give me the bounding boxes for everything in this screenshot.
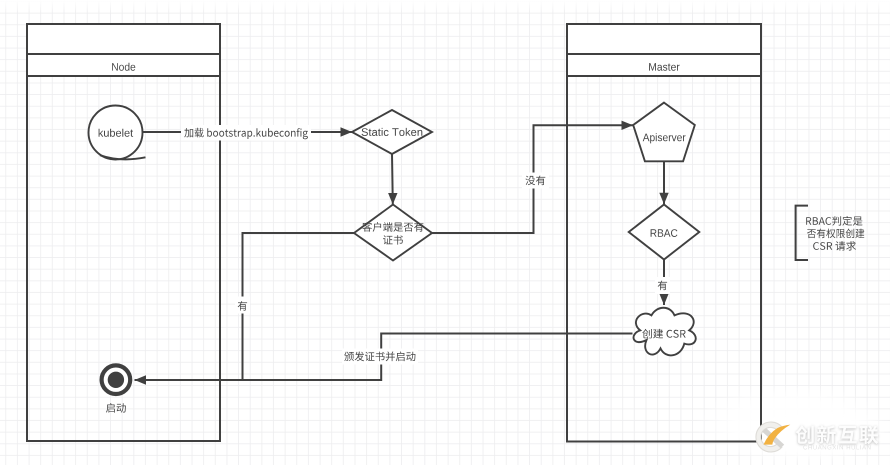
wire Apiserver down to RBAC — [659, 162, 668, 205]
watermark logo badge — [756, 422, 790, 452]
node client-cert diamond — [354, 205, 432, 261]
wire Static Token down to client-cert diamond — [388, 154, 397, 205]
swimlane Master title — [649, 63, 680, 71]
swimlane Node title — [112, 63, 135, 71]
node start label — [106, 403, 126, 413]
wire no-cert path: client-cert diamond right, up, into Apiserver — [432, 121, 633, 233]
node cloud label — [642, 329, 685, 339]
edge label issue cert and start — [342, 349, 418, 365]
edge label load bootstrap.kubeconfig — [181, 125, 311, 141]
node client-cert label line1 — [362, 222, 423, 232]
node Apiserver label — [643, 133, 686, 143]
wire cloud to start bullseye (issue cert and start) — [135, 334, 633, 385]
edge label no (meiyou) — [522, 173, 549, 189]
node client-cert label line2 — [383, 235, 403, 245]
watermark text chuangxin hulian — [796, 425, 879, 449]
swimlane Node — [27, 24, 220, 441]
edge label yes (you) left — [235, 297, 250, 314]
wire kubelet to Static Token — [143, 127, 353, 136]
node Static Token label — [362, 128, 423, 136]
edge label yes (you) right — [655, 277, 670, 294]
node kubelet label — [99, 129, 134, 137]
node Static Token diamond — [352, 110, 432, 154]
node start bullseye — [102, 365, 131, 394]
node cloud create CSR — [634, 308, 696, 356]
annotation text line3 — [813, 241, 856, 251]
node RBAC label — [651, 229, 678, 237]
wire RBAC down to cloud — [659, 260, 668, 305]
annotation text line1 — [806, 216, 862, 226]
node RBAC diamond — [629, 205, 700, 260]
annotation text line2 — [807, 229, 864, 239]
swimlane Master — [567, 24, 761, 442]
watermark glow — [695, 383, 890, 465]
node kubelet circle — [89, 106, 146, 160]
wire yes path: client-cert diamond left, down to start line — [243, 233, 355, 380]
node Apiserver pentagon — [633, 103, 695, 162]
bracket annotation — [796, 206, 808, 260]
